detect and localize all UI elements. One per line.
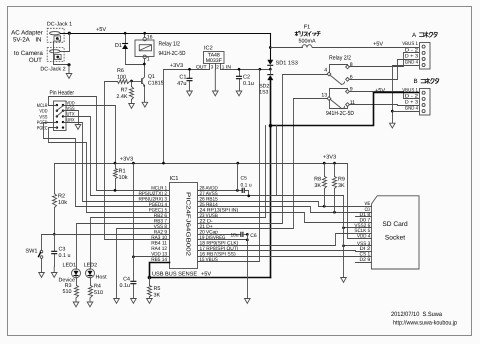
wire SD2 top bbox=[270, 70, 272, 75]
wire relay13 to D+ bbox=[198, 99, 328, 229]
node SD VSS1 bbox=[342, 244, 345, 247]
label C1 bbox=[177, 75, 186, 88]
svg-text:+5V: +5V bbox=[201, 272, 211, 278]
node C1 bbox=[188, 68, 191, 71]
wire +5V down bbox=[270, 34, 272, 60]
wire SD2 bottom thick bbox=[270, 81, 272, 278]
relay K2 pin 4 bbox=[324, 68, 331, 76]
label IC2 pins bbox=[196, 64, 231, 70]
wire to SW1 bbox=[42, 235, 55, 251]
svg-text:R6: R6 bbox=[117, 68, 124, 74]
svg-text:PGEC: PGEC bbox=[37, 126, 48, 132]
label B connector bbox=[414, 78, 439, 85]
label 941H-2C-5D K1 bbox=[159, 50, 187, 57]
ground C2 bbox=[236, 91, 242, 96]
svg-text:2.4K: 2.4K bbox=[116, 94, 127, 100]
connector B box bbox=[420, 89, 431, 116]
svg-text:C6: C6 bbox=[250, 233, 257, 239]
label R6 bbox=[117, 68, 126, 80]
wire RB3 LED1 bbox=[77, 224, 170, 269]
node jack gnd bbox=[67, 63, 70, 66]
svg-text:OUT: OUT bbox=[29, 57, 42, 64]
switch SW1 bbox=[39, 250, 43, 266]
label C6 value bbox=[231, 232, 239, 238]
LED2 bbox=[86, 269, 95, 278]
ground C3 bbox=[51, 267, 57, 278]
label +3V3 rail bbox=[120, 157, 133, 163]
svg-text:941H-2C-5D: 941H-2C-5D bbox=[326, 110, 355, 117]
svg-text:IN: IN bbox=[35, 36, 41, 43]
svg-text:R4: R4 bbox=[94, 284, 101, 290]
resistor R6 bbox=[118, 80, 130, 84]
node rail VDD hdr bbox=[114, 162, 117, 165]
relay K2 pole2 path bbox=[330, 89, 348, 97]
wire +3V3 rail bbox=[55, 163, 348, 165]
svg-text:LED2: LED2 bbox=[84, 262, 98, 268]
node SW1 bbox=[53, 233, 56, 236]
node R1 MCLR bbox=[114, 189, 117, 192]
wire B VBUS thick bbox=[271, 93, 419, 126]
svg-text:8: 8 bbox=[350, 62, 353, 68]
wire SPIOUT DI bbox=[198, 251, 372, 252]
svg-text:500mA: 500mA bbox=[298, 39, 315, 45]
svg-text:IC1: IC1 bbox=[170, 175, 179, 182]
svg-text:R9: R9 bbox=[338, 177, 345, 183]
ground jack bbox=[66, 65, 72, 79]
ground R3 bbox=[73, 298, 79, 307]
svg-text:+3V3: +3V3 bbox=[120, 157, 133, 163]
svg-text:10k: 10k bbox=[119, 174, 128, 181]
svg-text:10u: 10u bbox=[231, 232, 239, 238]
ground AB bbox=[390, 123, 396, 128]
svg-text:C5: C5 bbox=[241, 176, 248, 182]
label Pin Header bbox=[50, 90, 75, 97]
wire aux vertical bbox=[276, 126, 278, 196]
node rail AVDD bbox=[236, 162, 239, 165]
label C6 bbox=[250, 233, 257, 239]
resistor R1 bbox=[114, 164, 118, 191]
wire RB14 CD bbox=[198, 207, 372, 213]
node diode-or left bbox=[259, 68, 262, 71]
label R1 bbox=[119, 169, 128, 182]
resistor R7 bbox=[130, 82, 134, 100]
pin header diagonals bbox=[57, 106, 64, 117]
svg-text:SW1: SW1 bbox=[25, 249, 37, 255]
svg-text:Q1: Q1 bbox=[148, 74, 155, 80]
svg-text:3: 3 bbox=[211, 64, 214, 69]
resistor R5 bbox=[148, 278, 152, 297]
node R6 R7 bbox=[130, 80, 133, 83]
svg-text:DC-Jack 2: DC-Jack 2 bbox=[40, 67, 65, 73]
wire F1 right bbox=[313, 47, 419, 49]
wire jack2 sleeve bbox=[54, 42, 70, 65]
relay K1 coil box bbox=[135, 40, 154, 57]
svg-text:3K: 3K bbox=[314, 183, 321, 189]
svg-text:R3: R3 bbox=[65, 283, 72, 289]
wire relay1 to Q1 bbox=[144, 59, 146, 103]
labels IC1 left pins bbox=[139, 186, 168, 264]
label R2 bbox=[58, 194, 67, 207]
diode D1 bbox=[122, 44, 128, 50]
node thick junction bbox=[269, 124, 273, 128]
capacitor C4 bbox=[130, 257, 136, 299]
svg-text:16: 16 bbox=[147, 34, 153, 40]
svg-text:4: 4 bbox=[324, 68, 327, 74]
wire RB15 WE bbox=[198, 202, 372, 207]
svg-text:+3V3: +3V3 bbox=[323, 155, 336, 161]
svg-text:SD Card: SD Card bbox=[382, 221, 408, 228]
label date bbox=[391, 311, 443, 318]
svg-text:1: 1 bbox=[147, 56, 150, 62]
wire Q1 base bbox=[132, 81, 142, 83]
svg-text:GND 4: GND 4 bbox=[405, 60, 418, 66]
svg-text:47u: 47u bbox=[177, 81, 186, 87]
wire SD VSS bbox=[344, 228, 372, 246]
ground C6 bbox=[245, 299, 251, 304]
transistor Q1 bbox=[142, 77, 145, 87]
svg-text:+5V: +5V bbox=[373, 42, 383, 48]
labels SD pins bbox=[354, 201, 370, 263]
relay K1 pin 1 bbox=[143, 55, 150, 62]
svg-text:VBUS 1: VBUS 1 bbox=[402, 41, 418, 47]
pin header pins bbox=[56, 104, 64, 129]
wire DISVREG bbox=[198, 239, 248, 241]
IC1 box bbox=[170, 183, 198, 269]
svg-text:Host: Host bbox=[96, 274, 108, 280]
ground SD VSS bbox=[341, 278, 347, 283]
relay K2 pin 11 bbox=[346, 100, 356, 107]
node F1 branch bbox=[269, 46, 272, 49]
SD card socket box bbox=[371, 196, 419, 269]
svg-text:C1815: C1815 bbox=[148, 81, 164, 87]
wire R2 to node bbox=[54, 208, 56, 235]
label C4 bbox=[120, 277, 131, 290]
relay K2 pin 13 bbox=[321, 92, 330, 100]
svg-text:D - 2: D - 2 bbox=[405, 48, 418, 54]
wire RB2 LED2 bbox=[91, 218, 170, 269]
label url bbox=[393, 320, 457, 327]
wire VDD13 bbox=[134, 164, 170, 257]
svg-text:13: 13 bbox=[321, 92, 327, 98]
node relay16 +5V bbox=[143, 32, 146, 35]
fuse F1 bbox=[302, 45, 312, 48]
wire SD1 to node bbox=[270, 66, 272, 70]
relay K2 pole1 arm bbox=[331, 76, 345, 85]
node rail 3V3 feed bbox=[162, 162, 165, 165]
wire hdr URX bbox=[64, 123, 170, 202]
wire SD VDD bbox=[348, 164, 372, 239]
wire IC2 in bbox=[221, 69, 271, 71]
label B pins bbox=[402, 87, 418, 111]
wire D2 stub bbox=[356, 262, 372, 264]
resistor R8 bbox=[323, 164, 327, 207]
relay K2 pole1 path bbox=[330, 65, 348, 73]
wire R6 to RA3 bbox=[105, 82, 170, 240]
to Camera label bbox=[14, 50, 43, 64]
ground C1 bbox=[187, 91, 193, 96]
wire hdr PGED bbox=[44, 123, 170, 207]
svg-text:15 VBUS: 15 VBUS bbox=[200, 257, 219, 263]
wire RB5 sense thick bbox=[150, 263, 271, 278]
wire AVDD bbox=[198, 190, 243, 192]
label R8 bbox=[314, 177, 321, 190]
capacitor C3 bbox=[51, 235, 57, 267]
label TA48M033F bbox=[206, 53, 222, 65]
node C2 bbox=[238, 68, 241, 71]
svg-text:941H-2C-5D: 941H-2C-5D bbox=[159, 50, 187, 57]
svg-text:D + 3: D + 3 bbox=[405, 100, 418, 106]
ground VSS8 bbox=[114, 299, 120, 304]
wire D1 bottom bbox=[126, 50, 145, 65]
wire +5V rail bbox=[61, 33, 271, 35]
label Q1 bbox=[148, 74, 164, 87]
svg-text:510: 510 bbox=[63, 289, 72, 295]
svg-text:R8: R8 bbox=[314, 177, 321, 183]
label +3V3 SD bbox=[323, 155, 336, 161]
svg-text:2: 2 bbox=[216, 64, 219, 69]
label header right bbox=[67, 100, 76, 123]
label SD Card Socket bbox=[382, 221, 408, 242]
svg-text:F1: F1 bbox=[304, 25, 311, 31]
node B GND bbox=[391, 110, 394, 113]
svg-text:3K: 3K bbox=[338, 183, 345, 189]
node C6 DISVREG bbox=[246, 239, 249, 242]
svg-text:0.1 u: 0.1 u bbox=[59, 253, 71, 259]
svg-text:USB BUS SENSE: USB BUS SENSE bbox=[152, 272, 197, 278]
label A pins bbox=[402, 41, 418, 65]
svg-text:0.1u: 0.1u bbox=[243, 81, 254, 87]
ground C4 bbox=[131, 299, 137, 304]
svg-text:http://www.suwa-koubou.jp: http://www.suwa-koubou.jp bbox=[393, 320, 457, 327]
wire D1 top bbox=[125, 34, 127, 44]
label C2 bbox=[243, 75, 254, 88]
wire VBUS drop bbox=[198, 70, 260, 262]
label USB BUS SENSE bbox=[152, 272, 211, 278]
svg-text:C1: C1 bbox=[179, 75, 186, 81]
label IC2 bbox=[204, 46, 213, 52]
svg-text:R5: R5 bbox=[154, 286, 161, 292]
node AVDD bbox=[236, 189, 239, 192]
label C3 bbox=[59, 247, 71, 259]
resistor R9 bbox=[333, 164, 337, 213]
label C5 bbox=[241, 176, 252, 189]
resistor R3 bbox=[75, 279, 79, 298]
wire relay11 to B D+ bbox=[350, 105, 419, 106]
connector A box bbox=[420, 43, 431, 70]
label Relay 1/2 bbox=[159, 41, 181, 48]
label SD1 bbox=[276, 61, 298, 67]
wire SPICLK SCLK bbox=[198, 234, 372, 246]
LED1 bbox=[72, 269, 81, 278]
wire AVSS bbox=[198, 195, 344, 197]
DC-Jack 1 label bbox=[47, 22, 72, 28]
label +5V A bbox=[373, 42, 383, 48]
svg-text:0.1 u: 0.1 u bbox=[241, 182, 252, 188]
ground IC2 bbox=[213, 69, 219, 96]
label +5V B bbox=[375, 88, 385, 94]
resistor R4 bbox=[89, 279, 93, 298]
wire hdr UTX bbox=[64, 117, 170, 196]
svg-text:+5V: +5V bbox=[96, 27, 106, 33]
node relay1 D1 Q1 bbox=[143, 63, 146, 66]
node R9 rail bbox=[333, 162, 336, 165]
svg-text:D1: D1 bbox=[115, 43, 122, 49]
node SD VSS2 bbox=[342, 226, 345, 229]
diode SD1 bbox=[267, 60, 273, 66]
wire SPIIN D0 bbox=[198, 213, 372, 223]
DC-Jack 2 bbox=[47, 48, 64, 62]
label LED1 bbox=[59, 262, 77, 283]
svg-text:D - 2: D - 2 bbox=[405, 94, 418, 100]
label +5V rail bbox=[96, 27, 106, 33]
svg-text:VDD 4: VDD 4 bbox=[357, 234, 370, 240]
node R5 bbox=[148, 276, 152, 280]
wire relay9 to B D- bbox=[350, 92, 419, 99]
wire jack1-jack2 link bbox=[61, 34, 70, 52]
node diode-or right bbox=[269, 68, 272, 71]
label R9 bbox=[338, 177, 345, 190]
label LED2 bbox=[84, 262, 107, 280]
relay K2 pin 8 bbox=[346, 62, 353, 69]
ground R7 bbox=[129, 99, 135, 108]
wire rail to R2 bbox=[54, 164, 56, 194]
ground SW1 bbox=[39, 267, 45, 278]
label F1 bbox=[295, 25, 320, 45]
relay K2 pole2 under path bbox=[330, 101, 348, 109]
svg-text:DC-Jack 1: DC-Jack 1 bbox=[47, 22, 72, 28]
node rail VDD13 bbox=[132, 162, 135, 165]
diode SD2 bbox=[267, 75, 273, 81]
label SD2 bbox=[259, 84, 269, 96]
wire VSS8 bbox=[117, 229, 170, 299]
wire SD VSS gnd bbox=[343, 196, 345, 278]
label A connector bbox=[412, 32, 437, 39]
wire SPISS CS bbox=[198, 256, 372, 258]
label SW1 bbox=[25, 249, 37, 255]
AC Adapter label bbox=[11, 30, 43, 44]
wire hdr VDD bbox=[64, 106, 116, 164]
ground header bbox=[75, 125, 81, 130]
DC-Jack 1 bbox=[47, 28, 64, 42]
labels IC1 right pins bbox=[200, 186, 239, 264]
label D1 bbox=[115, 43, 122, 49]
svg-text:C4: C4 bbox=[123, 277, 130, 283]
node C4 bbox=[132, 256, 135, 259]
ground R5 bbox=[147, 297, 153, 304]
svg-text:10k: 10k bbox=[58, 199, 67, 206]
node C5 AVSS bbox=[247, 195, 250, 198]
label R4 bbox=[94, 284, 103, 297]
svg-text:1S3: 1S3 bbox=[259, 90, 268, 96]
svg-text:R7: R7 bbox=[121, 88, 128, 94]
label +3V3 top bbox=[170, 63, 183, 69]
label R7 bbox=[116, 88, 127, 100]
wire VUSB bbox=[198, 126, 266, 218]
capacitor C5 bbox=[242, 188, 248, 196]
IC2 pin stubs bbox=[210, 64, 221, 70]
relay K2 pin 9 bbox=[346, 87, 353, 94]
label R3 bbox=[63, 283, 72, 295]
node R8 rail bbox=[323, 162, 326, 165]
wire relay4 to D- bbox=[198, 75, 328, 224]
node C6 top bbox=[246, 233, 249, 236]
wire AVDD rail drop bbox=[237, 164, 239, 191]
svg-text:+3V3: +3V3 bbox=[170, 63, 183, 69]
svg-text:IC2: IC2 bbox=[204, 46, 213, 52]
svg-text:3K: 3K bbox=[154, 293, 161, 299]
relay K1 pin 16 bbox=[143, 34, 153, 41]
svg-text:PIC24FJ64GB002: PIC24FJ64GB002 bbox=[185, 192, 192, 256]
wire A GND bbox=[393, 66, 419, 124]
svg-text:R1: R1 bbox=[119, 169, 126, 175]
svg-text:Relay 1/2: Relay 1/2 bbox=[159, 41, 181, 48]
svg-text:0.1u: 0.1u bbox=[120, 283, 131, 289]
svg-text:LED1: LED1 bbox=[63, 262, 77, 268]
capacitor C1 bbox=[187, 70, 193, 92]
capacitor C2 bbox=[236, 70, 242, 92]
svg-text:M033F: M033F bbox=[206, 58, 222, 64]
svg-text:1: 1 bbox=[222, 64, 225, 69]
wire B GND bbox=[393, 111, 419, 113]
wire hdr PGEC bbox=[49, 128, 170, 213]
svg-text:Pin Header: Pin Header bbox=[50, 90, 75, 97]
wire D1 stub bbox=[356, 216, 372, 218]
svg-text:510: 510 bbox=[94, 290, 103, 296]
node jack tip bbox=[68, 32, 71, 35]
wire C6 gnd bbox=[247, 235, 249, 299]
wire hdr MCLR bbox=[49, 97, 170, 191]
svg-text:B: B bbox=[414, 78, 418, 85]
svg-text:C2: C2 bbox=[243, 75, 250, 81]
wire IC2 out 3V3 bbox=[164, 70, 210, 164]
IC2 box bbox=[204, 52, 225, 64]
svg-text:5V-2A: 5V-2A bbox=[13, 36, 31, 43]
node D1 +5V bbox=[124, 32, 127, 35]
relay K2 pin 6 bbox=[346, 75, 353, 82]
resistor R2 bbox=[53, 194, 57, 208]
capacitor C6 bbox=[241, 232, 248, 237]
svg-text:C3: C3 bbox=[59, 247, 66, 253]
wire relay6 to A D+ bbox=[350, 60, 419, 80]
svg-text:R2: R2 bbox=[58, 194, 65, 200]
svg-text:2012/07/10 S.Suwa: 2012/07/10 S.Suwa bbox=[391, 311, 443, 318]
pin header box bbox=[54, 101, 67, 131]
label 941H-2C-5D K2 bbox=[326, 110, 355, 117]
svg-text:Socket: Socket bbox=[385, 235, 405, 242]
wire VCap bbox=[198, 234, 241, 236]
label header left bbox=[37, 103, 48, 132]
label IC1 bbox=[170, 175, 179, 182]
wire RA2 bbox=[55, 234, 170, 236]
wire relay16 to +5V bbox=[144, 34, 146, 38]
label PIC24FJ64GB002 bbox=[185, 192, 192, 256]
wire relay8 to A D- bbox=[350, 53, 419, 67]
label R5 bbox=[154, 286, 161, 299]
wire Q1 emitter gnd bbox=[142, 102, 148, 107]
relay K2 pole2 arm bbox=[331, 100, 345, 109]
label Relay 2/2 bbox=[329, 55, 352, 62]
svg-text:Relay 2/2: Relay 2/2 bbox=[329, 55, 352, 62]
svg-text:SD1 1S3: SD1 1S3 bbox=[276, 61, 298, 67]
node R8 WE bbox=[323, 205, 326, 208]
svg-text:100: 100 bbox=[117, 74, 126, 80]
DC-Jack 2 label bbox=[40, 67, 65, 73]
node R9 CD bbox=[333, 211, 336, 214]
ground R4 bbox=[87, 298, 93, 307]
wire F1 left bbox=[271, 47, 303, 49]
wire hdr VSS gnd bbox=[64, 111, 79, 125]
svg-text:GND 4: GND 4 bbox=[405, 106, 418, 112]
